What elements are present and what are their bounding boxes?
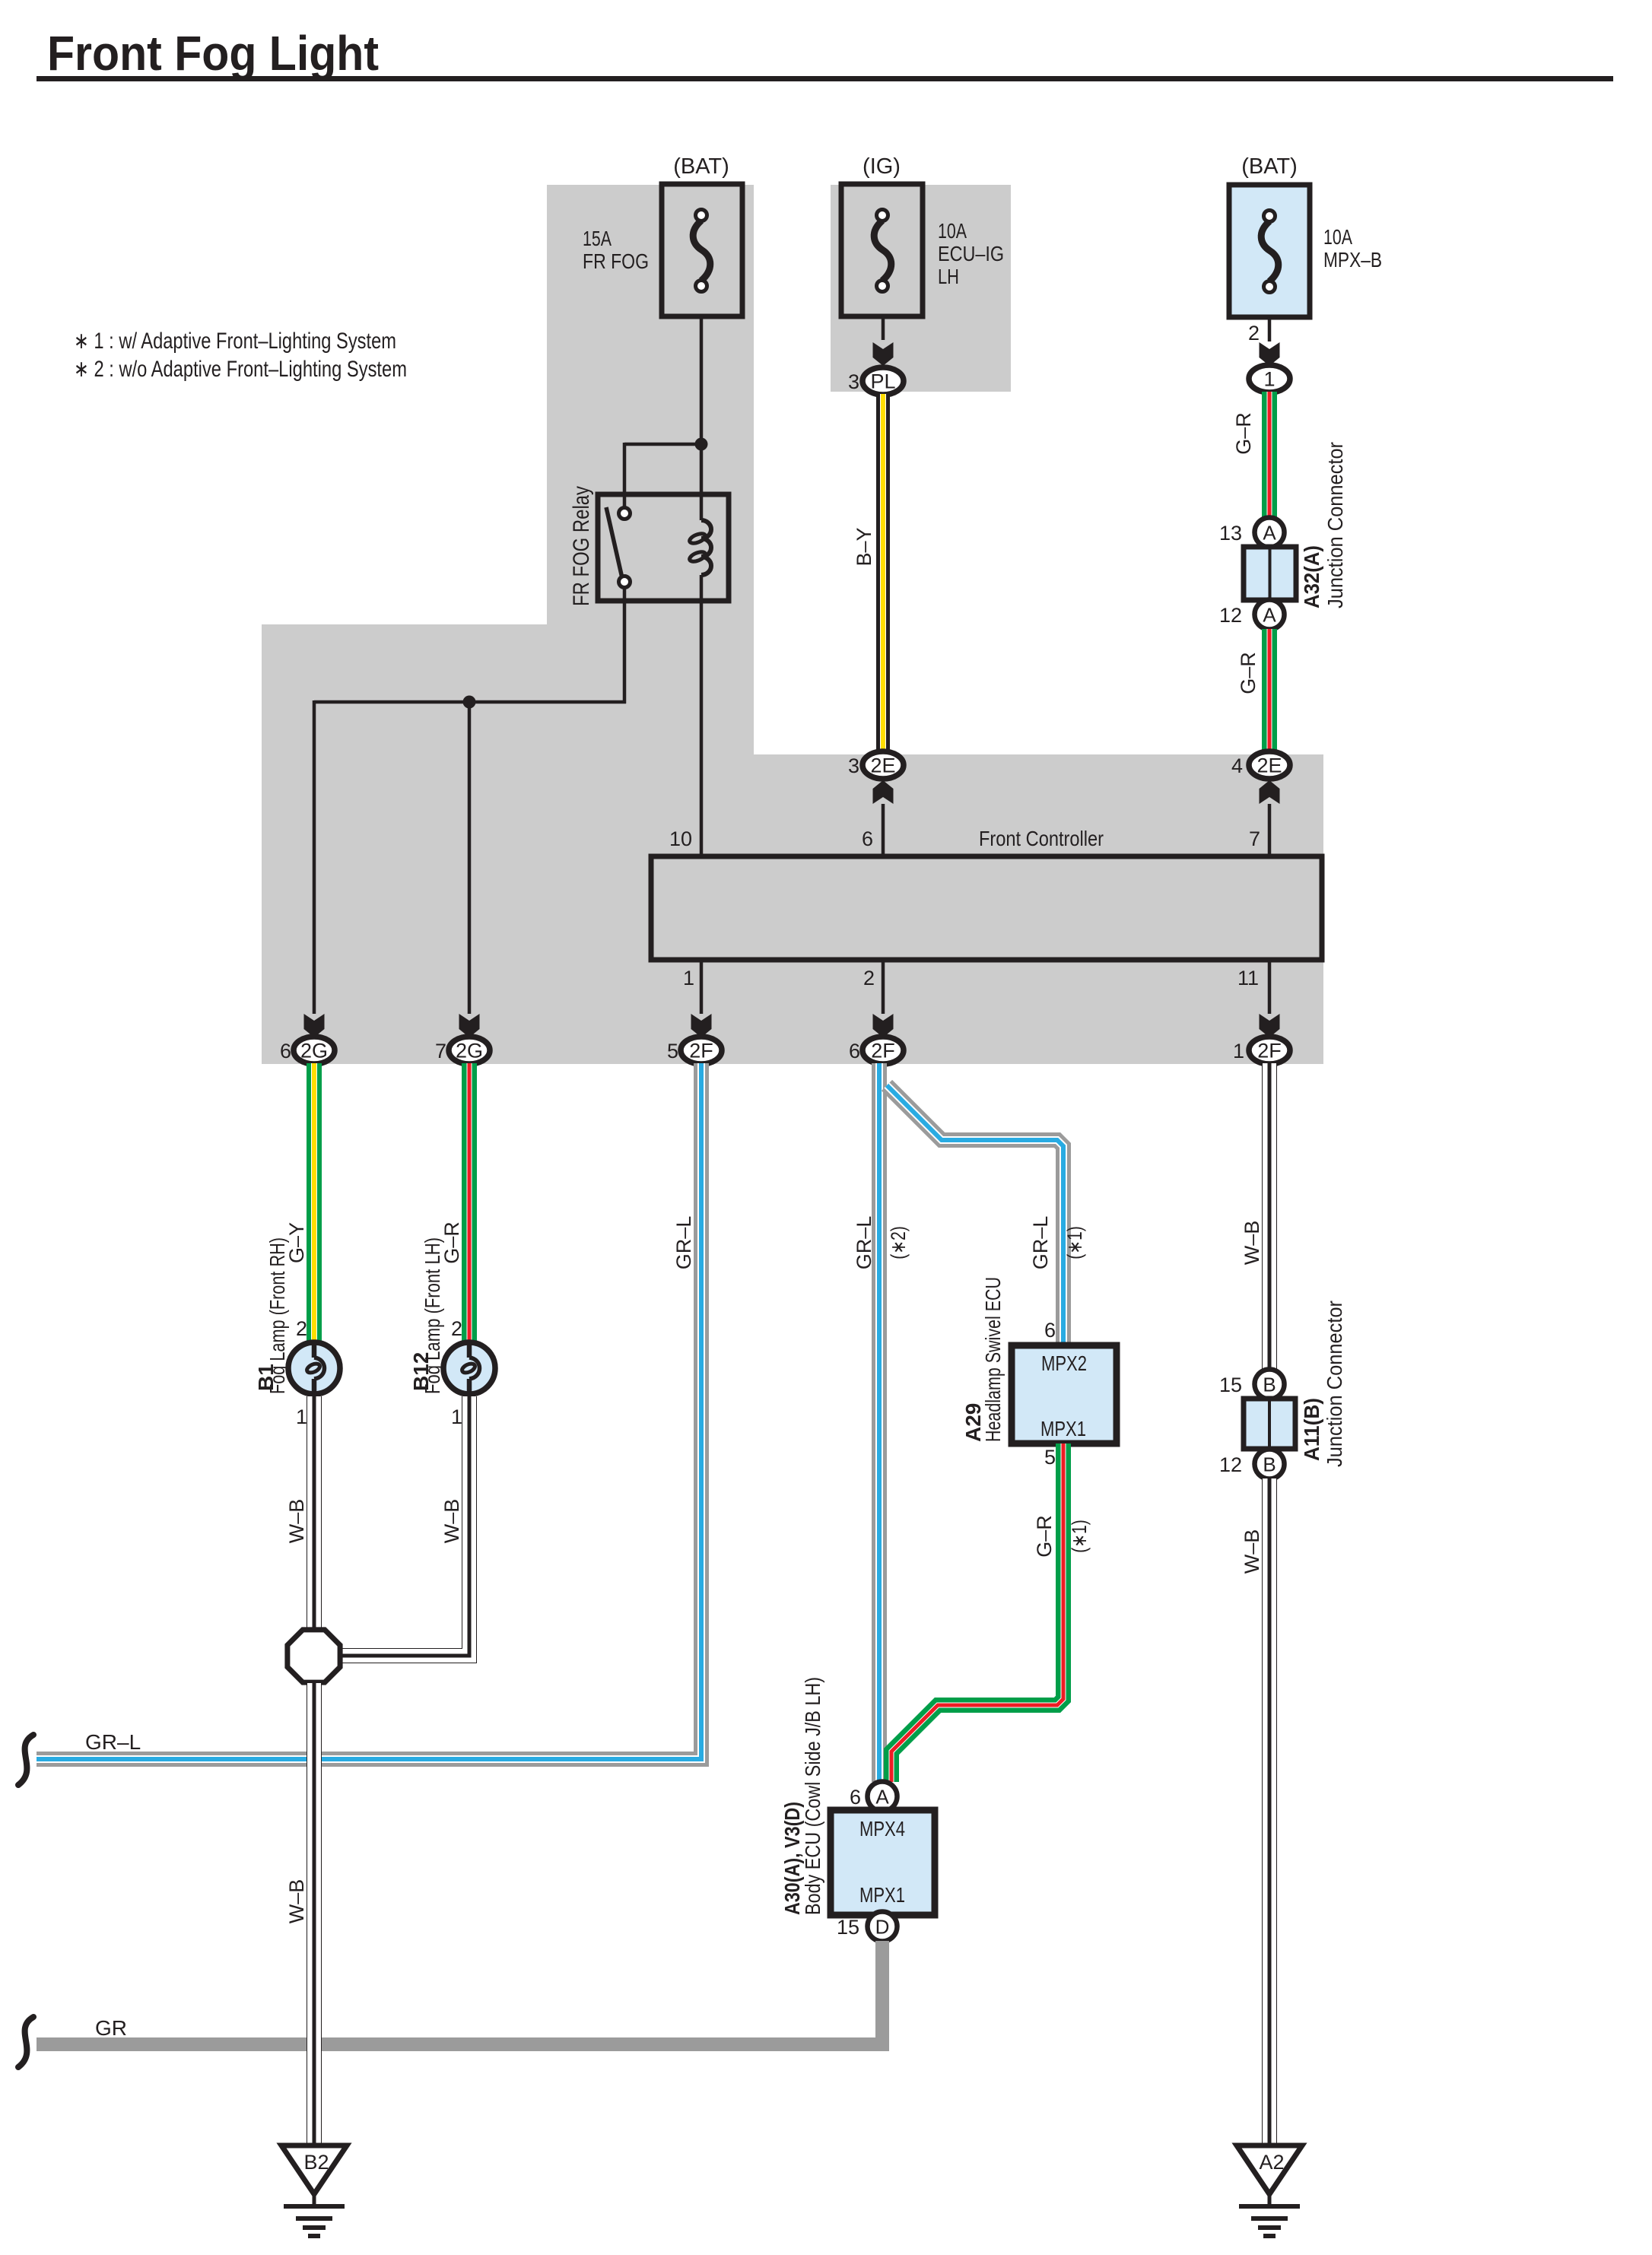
svg-text:1: 1	[683, 967, 694, 989]
wire GR-L 2F5 to horizontal run	[37, 1063, 701, 1759]
svg-text:Front Controller: Front Controller	[979, 827, 1104, 850]
svg-text:7: 7	[435, 1040, 446, 1062]
arrow into 2E pin4	[1260, 780, 1280, 804]
svg-text:MPX1: MPX1	[859, 1883, 905, 1907]
arrow into PL	[873, 342, 894, 366]
break symbol GR	[18, 2017, 33, 2067]
junction connector pin B12	[1255, 1450, 1285, 1479]
fog lamp B1 Front RH	[288, 1342, 340, 1394]
svg-text:A32(A): A32(A)	[1300, 545, 1323, 608]
connector 2E pin3	[863, 751, 904, 779]
svg-text:MPX2: MPX2	[1041, 1351, 1087, 1375]
svg-text:W–B: W–B	[1241, 1221, 1263, 1266]
junction connector pin A6 body ECU	[868, 1782, 897, 1812]
wire GR-L 2F6 to body ECU	[872, 1063, 887, 1782]
gray harness region left strip	[547, 185, 754, 624]
svg-text:(IG): (IG)	[863, 154, 901, 179]
svg-text:A: A	[1263, 522, 1276, 545]
svg-text:5: 5	[1044, 1446, 1056, 1469]
svg-text:∗ 1 : w/ Adaptive Front–Lighti: ∗ 1 : w/ Adaptive Front–Lighting System	[74, 329, 396, 354]
arrow into connector 1	[1260, 342, 1280, 366]
svg-text:GR–L: GR–L	[672, 1216, 695, 1270]
svg-text:2: 2	[296, 1317, 307, 1340]
wire branch to connector 2G pin7	[468, 702, 472, 1014]
junction connector pin D15 body ECU	[868, 1912, 897, 1942]
ground A2	[1237, 2145, 1302, 2194]
connector PL pin3	[863, 367, 904, 395]
junction connector pin B15	[1255, 1370, 1285, 1399]
arrow into 2G pin7	[459, 1014, 480, 1037]
svg-text:(∗2): (∗2)	[887, 1226, 910, 1259]
svg-text:6: 6	[850, 1786, 861, 1809]
svg-text:B2: B2	[303, 2151, 329, 2174]
svg-text:10: 10	[669, 827, 692, 850]
svg-text:2F: 2F	[689, 1040, 713, 1062]
svg-text:G–R: G–R	[1237, 652, 1260, 694]
svg-text:FR FOG: FR FOG	[583, 249, 649, 273]
svg-text:Junction Connector: Junction Connector	[1323, 442, 1347, 608]
svg-text:B: B	[1263, 1374, 1276, 1396]
wire controller pin11 to 2F pin1	[1268, 960, 1272, 1014]
wire G-Y 2G6 to fog lamp RH	[307, 1063, 322, 1343]
svg-text:1: 1	[1233, 1040, 1244, 1062]
svg-text:(∗1): (∗1)	[1063, 1226, 1086, 1259]
svg-text:1: 1	[1263, 368, 1275, 391]
wire W-B splice to ground B2	[307, 1683, 322, 2145]
wire GR body ECU to horizontal run	[37, 1941, 882, 2044]
svg-text:6: 6	[280, 1040, 291, 1062]
wire GR-L branch to headlamp swivel ECU	[887, 1085, 1063, 1346]
svg-text:2G: 2G	[300, 1040, 328, 1062]
svg-text:15: 15	[837, 1916, 859, 1939]
svg-text:12: 12	[1219, 1453, 1242, 1476]
svg-text:4: 4	[1231, 754, 1243, 777]
wire W-B B12 to ground A2	[1262, 1478, 1277, 2145]
svg-text:A11(B): A11(B)	[1300, 1398, 1323, 1461]
svg-text:G–R: G–R	[1232, 412, 1255, 455]
fuse 10A MPX-B	[1229, 185, 1310, 317]
svg-text:Fog Lamp (Front RH): Fog Lamp (Front RH)	[265, 1237, 289, 1394]
svg-text:6: 6	[862, 827, 873, 850]
svg-text:2F: 2F	[1257, 1040, 1282, 1062]
wire fuse ECU-IG to connector PL	[882, 316, 885, 340]
svg-text:D: D	[875, 1916, 890, 1939]
svg-text:2E: 2E	[1256, 754, 1282, 777]
svg-text:MPX–B: MPX–B	[1323, 248, 1382, 272]
svg-text:GR–L: GR–L	[1029, 1216, 1052, 1270]
svg-text:2G: 2G	[456, 1040, 483, 1062]
connector 2F pin6	[863, 1037, 904, 1064]
connector 2G pin6	[294, 1037, 335, 1064]
connector 2F pin5	[681, 1037, 722, 1064]
svg-text:10A: 10A	[938, 219, 967, 243]
wire W-B crossing overlay	[307, 1742, 322, 2063]
svg-text:MPX1: MPX1	[1040, 1417, 1086, 1440]
gray harness region right block	[754, 754, 1323, 1064]
svg-text:2: 2	[451, 1317, 462, 1340]
svg-text:13: 13	[1219, 522, 1242, 545]
wire W-B fog lamp RH to splice	[307, 1396, 322, 1629]
ECU A29 Headlamp Swivel	[1012, 1345, 1117, 1444]
junction node relay feed	[695, 438, 708, 451]
wire junction to relay switch	[624, 443, 701, 446]
svg-text:FR FOG Relay: FR FOG Relay	[569, 486, 594, 606]
wire G-R A12 to 2E pin4	[1262, 629, 1277, 752]
connector 2F pin1	[1249, 1037, 1290, 1064]
wire fuse FR FOG to junction	[700, 316, 704, 496]
gray harness region IG strip	[831, 185, 1011, 392]
ECU Front Controller	[651, 856, 1322, 960]
svg-text:B: B	[1263, 1453, 1276, 1476]
svg-text:6: 6	[1044, 1319, 1056, 1342]
junction connector pin A13	[1255, 518, 1285, 548]
svg-text:GR: GR	[95, 2016, 127, 2040]
svg-text:A: A	[875, 1786, 889, 1809]
wire 2E3 to controller pin6	[882, 804, 885, 856]
svg-text:GR–L: GR–L	[853, 1216, 875, 1270]
ground B2	[281, 2145, 347, 2194]
svg-text:Front Fog Light: Front Fog Light	[47, 26, 379, 81]
svg-text:B–Y: B–Y	[853, 527, 875, 566]
svg-text:1: 1	[296, 1405, 307, 1428]
svg-text:6: 6	[849, 1040, 860, 1062]
svg-text:10A: 10A	[1323, 225, 1352, 249]
svg-text:LH: LH	[938, 265, 959, 288]
junction node fog lamp LH branch	[463, 696, 476, 709]
splice octagon node	[288, 1630, 340, 1682]
svg-text:W–B: W–B	[285, 1879, 308, 1924]
fog lamp B12 Front LH	[443, 1342, 495, 1394]
break symbol GR-L	[18, 1735, 33, 1785]
connector 2G pin7	[449, 1037, 490, 1064]
wire W-B fog lamp LH to splice	[342, 1396, 469, 1656]
svg-text:A: A	[1263, 604, 1276, 627]
wire W-B 2F1 to junction connector B15	[1262, 1063, 1277, 1370]
svg-text:15A: 15A	[583, 227, 612, 250]
svg-text:2F: 2F	[871, 1040, 895, 1062]
svg-text:(∗1): (∗1)	[1068, 1520, 1091, 1553]
junction connector pin A12	[1255, 600, 1285, 630]
svg-text:2: 2	[1248, 322, 1260, 345]
junction connector A11(B)	[1244, 1399, 1295, 1449]
svg-text:7: 7	[1249, 827, 1260, 850]
arrow into 2E pin3	[873, 780, 894, 804]
connector 2E pin4	[1249, 751, 1290, 779]
wire B-Y PL to 2E	[876, 394, 890, 752]
fuse 10A ECU-IG LH	[841, 184, 923, 316]
svg-text:∗ 2 : w/o Adaptive Front–Light: ∗ 2 : w/o Adaptive Front–Lighting System	[74, 357, 407, 382]
svg-text:12: 12	[1219, 604, 1242, 627]
svg-text:ECU–IG: ECU–IG	[938, 242, 1004, 265]
fuse 15A FR FOG	[662, 184, 742, 316]
svg-text:PL: PL	[870, 370, 895, 393]
svg-text:2E: 2E	[870, 754, 895, 777]
svg-text:3: 3	[848, 754, 859, 777]
svg-text:1: 1	[451, 1405, 462, 1428]
svg-text:MPX4: MPX4	[859, 1817, 905, 1841]
wire relay coil to controller pin10	[700, 575, 704, 856]
wire relay switch to distribution	[623, 587, 627, 703]
svg-text:(BAT): (BAT)	[1241, 154, 1298, 179]
svg-text:W–B: W–B	[285, 1499, 308, 1544]
svg-text:Body ECU (Cowl Side J/B LH): Body ECU (Cowl Side J/B LH)	[801, 1677, 824, 1915]
svg-text:5: 5	[667, 1040, 678, 1062]
svg-text:15: 15	[1219, 1374, 1242, 1396]
svg-text:11: 11	[1237, 967, 1259, 989]
svg-text:A2: A2	[1259, 2151, 1284, 2174]
wire fuse MPX-B to connector 1	[1268, 317, 1272, 341]
svg-text:W–B: W–B	[440, 1499, 463, 1544]
wire G-R 2G7 to fog lamp LH	[462, 1063, 477, 1343]
wire controller pin2 to 2F pin6	[882, 960, 885, 1014]
junction connector A32(A)	[1244, 547, 1296, 600]
svg-text:3: 3	[848, 370, 859, 393]
arrow into 2G pin6	[304, 1014, 325, 1037]
ECU A30 Body ECU	[831, 1810, 935, 1915]
svg-text:Fog Lamp (Front LH): Fog Lamp (Front LH)	[421, 1237, 444, 1394]
relay FR FOG Relay	[598, 494, 729, 601]
connector 1	[1249, 365, 1290, 392]
svg-text:G–R: G–R	[1033, 1515, 1056, 1558]
svg-text:2: 2	[863, 967, 875, 989]
gray harness region mid block	[262, 624, 754, 1064]
svg-text:Headlamp Swivel ECU: Headlamp Swivel ECU	[981, 1277, 1005, 1442]
wire controller pin1 to 2F pin5	[700, 960, 704, 1014]
svg-text:Junction Connector: Junction Connector	[1323, 1301, 1346, 1467]
svg-text:(BAT): (BAT)	[673, 154, 729, 179]
svg-text:GR–L: GR–L	[85, 1730, 141, 1754]
wire G-R connector1 to A13	[1262, 392, 1277, 519]
wire 2E4 to controller pin7	[1268, 804, 1272, 856]
svg-text:W–B: W–B	[1241, 1529, 1263, 1574]
